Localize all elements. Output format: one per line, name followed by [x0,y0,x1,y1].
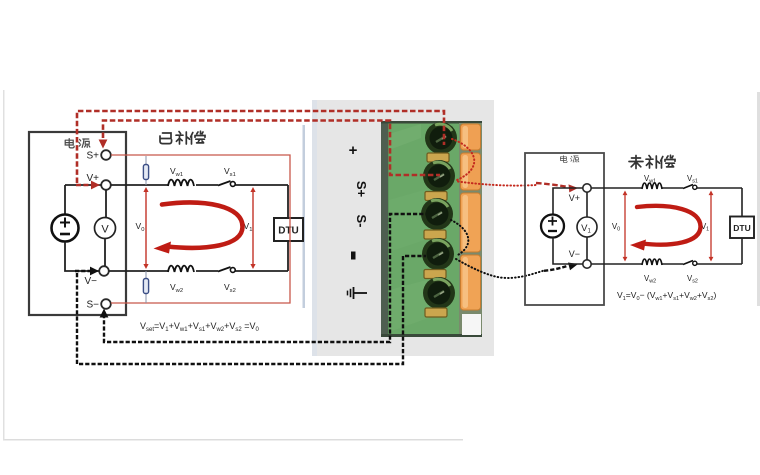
resistor Vw2 (squiggle, bottom) [168,266,194,272]
photo panel pale blue left band [312,100,317,356]
black dashed arrow into V- [75,270,90,272]
big red feedback arrow (left circuit) [162,203,243,248]
switch Vs2 (right) [683,261,693,265]
wire slot 5 [425,308,447,317]
screw 1 [425,122,457,154]
faint vertical divider line [303,125,306,308]
red dashed wire A: outer loop to screw1 / V+ [77,111,444,183]
sense loop S+ / S- (thin red rectangle) [111,155,290,303]
black dotted link screw4 stub [456,259,544,278]
wire into DTU top (right) [741,188,743,217]
wire into DTU top (left) [287,185,289,218]
svg-text:S-: S- [354,215,369,228]
svg-text:S+: S+ [354,181,369,198]
screw 5 [423,277,455,309]
svg-text:DTU: DTU [733,223,750,233]
svg-text:V−: V− [84,276,97,287]
switch Vs1 (right) [683,185,693,189]
orange latch 4 [461,255,481,310]
terminal block body (green) [381,121,482,337]
wire left branch vertical bottom [65,242,99,271]
voltmeter V (left) [95,218,116,239]
DTU box (right) [730,217,754,239]
label 电源 (right supply) [560,156,578,163]
svg-text:S−: S− [86,300,99,311]
sense tap connector top (thin line) [145,156,147,185]
svg-text:S+: S+ [86,151,99,162]
screw 3 [421,198,453,230]
wire V+ down to voltmeter (right) [586,192,588,217]
svg-text:V: V [101,224,109,236]
black dashed wire: S- to screw3 [104,214,426,342]
V1 measure arrow (left circuit) [250,187,255,269]
terminal V+ (left) [101,180,111,190]
terminal V+ (right) [583,184,591,192]
faint left divider line [3,90,5,440]
svg-text:DTU: DTU [278,226,299,237]
black dashed arrow into S- [100,309,109,318]
wire V+ to left branch (right circuit) [553,188,583,215]
bottom wire V- to DTU [109,270,288,272]
screw 4 [422,238,454,270]
wire slot 4 [424,270,446,279]
orange latch 1 [461,124,481,150]
terminal S- (left) [101,299,111,309]
voltage source V1 (left, circle with +/-) [52,215,79,242]
voltmeter V1 (right) [577,217,597,237]
red dashed arrow into V+ [76,184,94,187]
title 未补偿 [629,155,675,168]
red dashed arrow into S+ [99,140,108,149]
resistor Vw2 (right) [642,259,662,265]
top wire right circuit [591,187,742,189]
big red feedback arrow (right circuit) [637,206,701,245]
faint bottom divider line [3,439,463,441]
V0 measure arrow (left circuit) [143,187,148,269]
red dashed wire B: inner loop to screw2 / S+ [103,121,440,176]
label 电源 (left supply) [65,139,90,148]
wire V+ down to voltmeter [105,190,107,217]
power supply box (right) [525,153,604,305]
title 已补偿 [160,131,205,144]
terminal V- (right) [583,260,591,268]
wire slot 3 [424,230,446,239]
black dashed wire: V- to screw4 [77,256,426,364]
terminal V- (left) [99,266,109,276]
far-right gray sliver [757,92,760,306]
resistor Vw1 (squiggle, top) [168,180,194,186]
white corner piece [462,314,481,335]
voltage source (right, circle with +/-) [541,215,564,238]
switch Vs2 (bottom) [218,267,231,272]
wire voltmeter to V- (right) [586,237,588,260]
wire voltmeter to V- [104,239,106,267]
red dashed into right V+ [536,183,568,187]
latch rail background [459,123,482,334]
red dotted link screw2 stub [458,182,536,186]
bottom wire right circuit [591,263,742,265]
top wire V+ to DTU [111,184,288,186]
wire out DTU bottom (left) [287,241,289,271]
terminal S+ (left) [101,150,111,160]
wire left branch vertical top [64,185,66,214]
orange latch 2 [461,153,481,190]
red dotted link screw1 to right circuit [452,139,474,180]
sense tap connector bottom (thin line) [145,271,147,303]
terminal block photo: ground symbol (rotated) [348,287,368,299]
black dotted link screw3 to right circuit [451,220,468,256]
screw 2 [423,160,455,192]
V0 measure arrow (right circuit) [623,191,628,262]
sense element top (small blue box) [143,165,148,180]
photo panel background [312,100,494,356]
black dashed into right V- [544,266,567,271]
wire V+ to left branch [65,184,101,186]
wire slot 1 [427,153,449,162]
svg-text:V+: V+ [569,193,580,203]
V1 measure arrow (right circuit) [709,191,714,262]
sense element bottom (small blue box) [143,279,148,294]
wire source to V- (right circuit) [553,238,583,265]
DTU box (left) [274,218,303,241]
svg-text:V−: V− [569,249,580,259]
wire slot 2 [425,192,447,201]
power supply box (left) [29,132,126,315]
resistor Vw1 (right) [642,183,662,189]
terminal block photo: label - (rotated) [351,252,356,260]
switch Vs1 (top) [218,181,231,186]
svg-text:+: + [349,142,358,159]
orange latch 3 [461,193,481,252]
wire out DTU bottom (right) [741,238,743,264]
